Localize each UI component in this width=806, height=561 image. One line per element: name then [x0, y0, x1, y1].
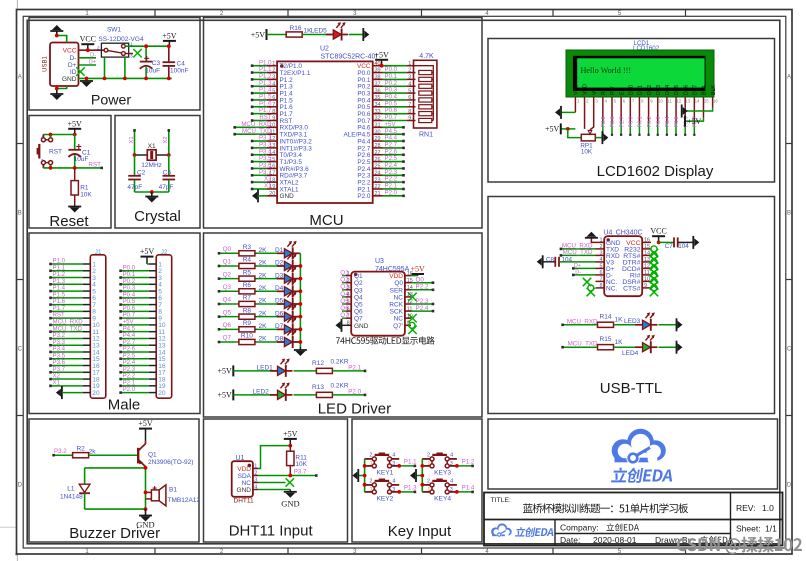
title block small logo: [491, 523, 555, 537]
Crystal box: [115, 116, 200, 229]
U2 pin 19 XTAL1: [251, 183, 299, 194]
svg-text:Q0: Q0: [223, 246, 232, 253]
svg-text:R15: R15: [600, 336, 612, 343]
svg-text:P2.0: P2.0: [123, 386, 136, 393]
LCD1 pin 14 DB7: [693, 85, 701, 136]
J1 pin 1: [49, 258, 96, 269]
+5V power flag (reset): [68, 119, 83, 134]
ground flag (LED3): [677, 318, 683, 331]
svg-text:R7: R7: [243, 295, 252, 302]
J2 pin 1: [147, 261, 162, 268]
ground flag (RP1): [602, 131, 608, 144]
wire: [257, 252, 284, 254]
J2 pin 3: [119, 271, 162, 282]
svg-text:P0.3: P0.3: [656, 116, 662, 127]
LCD1 pin 1 VSS: [574, 84, 580, 112]
J2 pin 16: [119, 359, 166, 370]
svg-text:Sheet:: Sheet:: [736, 524, 761, 534]
svg-text:D-: D-: [575, 270, 581, 276]
U2 pin 23 P2.2: [357, 176, 404, 187]
svg-text:D+: D+: [574, 263, 581, 269]
svg-text:25: 25: [375, 164, 381, 170]
svg-text:+5V: +5V: [138, 419, 153, 428]
U4 pin 4 V3: [561, 257, 615, 266]
J1 pin 9: [49, 312, 96, 323]
svg-text:31: 31: [375, 123, 381, 129]
J2 pin 12: [119, 332, 166, 343]
Power box: [29, 18, 200, 111]
svg-text:RN1: RN1: [419, 132, 433, 139]
svg-text:Key Input: Key Input: [388, 523, 452, 540]
svg-text:2N3906(TO-92): 2N3906(TO-92): [148, 459, 193, 466]
Reset box: [29, 116, 111, 229]
no-connect ID pin: [76, 67, 84, 75]
svg-text:Q6: Q6: [223, 322, 232, 329]
svg-text:+5V: +5V: [374, 50, 389, 59]
J1 pin 2: [49, 264, 96, 275]
LED LED4: [622, 335, 658, 357]
LCD1 pin 12 DB5: [674, 85, 682, 136]
node D-: [79, 52, 97, 58]
junction: [85, 77, 89, 81]
svg-text:DB3: DB3: [656, 85, 662, 95]
svg-text:8: 8: [408, 109, 411, 115]
svg-text:104: 104: [562, 256, 573, 263]
transistor Q1 2N3906(TO-92): [138, 441, 193, 466]
svg-text:6: 6: [272, 95, 275, 101]
LCD1 pin 2 VDD: [583, 84, 589, 129]
svg-text:2: 2: [408, 68, 411, 74]
USB-TTL U4 CH340C body: [603, 229, 642, 296]
wire: [257, 341, 284, 343]
title block outer: [484, 493, 783, 546]
svg-text:12: 12: [407, 299, 413, 305]
svg-text:2: 2: [369, 478, 372, 484]
svg-text:U3: U3: [375, 258, 384, 265]
svg-text:DB0: DB0: [628, 85, 634, 95]
watermark: [677, 537, 802, 555]
svg-text:Q2: Q2: [354, 280, 363, 287]
wire: [257, 316, 284, 318]
U3 pin 13 NC: [394, 292, 417, 301]
U2 pin 18 XTAL2: [251, 176, 299, 187]
svg-text:2: 2: [369, 452, 372, 458]
svg-text:R9: R9: [243, 320, 252, 327]
svg-text:0.2KR: 0.2KR: [331, 382, 349, 389]
+5V power flag (LCD BLA): [685, 116, 702, 127]
svg-text:4: 4: [408, 81, 411, 87]
svg-text:3: 3: [408, 75, 411, 81]
J1 pin 11: [49, 325, 99, 336]
svg-text:1N4148: 1N4148: [60, 493, 83, 500]
svg-text:R3: R3: [243, 244, 252, 251]
svg-text:B: B: [787, 211, 791, 217]
node Q7: [218, 335, 238, 344]
U4 pin 10 DSR#: [622, 277, 658, 290]
svg-text:20: 20: [92, 390, 100, 397]
resistor R1 10K: [71, 168, 92, 207]
U2 pin 40 VCC: [357, 61, 407, 70]
svg-text:3: 3: [599, 251, 602, 257]
svg-text:P2.0: P2.0: [357, 193, 371, 200]
J2 pin 14: [119, 346, 166, 357]
U4 pin 9 CTS#: [623, 283, 658, 296]
J2 pin 17: [119, 366, 166, 377]
svg-text:P2.4: P2.4: [416, 305, 429, 312]
svg-text:R13: R13: [312, 384, 324, 391]
J2 pin 5: [119, 285, 162, 296]
buzzer B1 TMB12A12: [146, 485, 201, 506]
LED D6: [275, 304, 299, 322]
svg-text:Crystal: Crystal: [134, 208, 181, 225]
svg-text:P2.2: P2.2: [416, 284, 429, 291]
svg-text:+5V: +5V: [218, 391, 233, 400]
J2 pin 18: [119, 373, 166, 384]
ground: [68, 207, 81, 213]
U4 pin 2 TXD: [560, 243, 620, 254]
capacitor C1 10uF: [68, 135, 90, 168]
svg-text:23: 23: [375, 177, 381, 183]
J2 pin 20: [119, 386, 166, 397]
svg-text:20: 20: [269, 191, 275, 197]
svg-text:X1: X1: [53, 379, 61, 386]
svg-text:P1.3: P1.3: [404, 485, 417, 492]
svg-text:3: 3: [272, 75, 275, 81]
svg-text:47pF: 47pF: [127, 184, 142, 191]
svg-text:27: 27: [375, 150, 381, 156]
svg-text:D: D: [787, 483, 792, 489]
junction: [288, 444, 292, 448]
svg-text:39: 39: [375, 68, 381, 74]
U2 pin 39 P0.0: [357, 66, 406, 77]
svg-text:7: 7: [408, 102, 411, 108]
svg-text:P1.2: P1.2: [462, 459, 475, 466]
svg-text:Company:: Company:: [560, 523, 599, 533]
wire: [57, 86, 67, 89]
svg-text:GND: GND: [237, 487, 252, 494]
U3 pin 9 Q7': [393, 321, 417, 335]
svg-text:+5V: +5V: [162, 31, 177, 40]
U3 pin 10 NC: [394, 313, 417, 322]
svg-text:34: 34: [375, 102, 381, 108]
wire VCC pin to switch: [79, 49, 104, 51]
ground flag (USB shield top): [50, 25, 63, 36]
+5V power flag (LED2): [218, 389, 234, 400]
svg-text:RS: RS: [601, 87, 607, 95]
LED D5: [275, 292, 299, 310]
svg-text:VCC: VCC: [650, 227, 666, 236]
svg-text:P0.5: P0.5: [674, 116, 680, 127]
svg-text:14: 14: [407, 285, 413, 291]
wire: [257, 265, 284, 267]
junction: [288, 474, 292, 478]
U4 pin 8 NC.: [587, 283, 618, 296]
junction: [657, 241, 661, 245]
wire to LED bus: [293, 328, 301, 330]
VCC power flag (U4): [650, 227, 666, 243]
svg-text:A: A: [18, 75, 22, 81]
U3 pin 11 SCK: [390, 305, 435, 316]
U2 pin 17 RD#/P3.7: [251, 169, 308, 180]
wire: [57, 36, 67, 43]
LCD box: [488, 39, 775, 183]
node MCU_TXD (LED4 row): [561, 341, 598, 349]
U2 pin 6 P1.5: [251, 94, 293, 105]
junctions: [49, 166, 77, 170]
J1 pin 4: [49, 278, 96, 289]
svg-text:1: 1: [272, 61, 275, 67]
J1 pin 12: [49, 332, 100, 343]
ground flag (LED4): [677, 341, 683, 354]
U2 pin 36 P0.3: [357, 87, 406, 98]
svg-text:10uF: 10uF: [74, 156, 89, 163]
LCD1 pin 15 BLA: [685, 85, 709, 121]
svg-text:KEY2: KEY2: [376, 496, 393, 503]
svg-text:C3: C3: [152, 60, 161, 67]
svg-text:E: E: [619, 91, 625, 95]
svg-text:CTS#: CTS#: [623, 285, 641, 292]
svg-text:Hello World !!!: Hello World !!!: [581, 66, 632, 75]
svg-text:12MHz: 12MHz: [141, 162, 162, 169]
junction: [455, 464, 459, 468]
push button RST: [37, 134, 53, 168]
svg-text:1/1: 1/1: [765, 524, 777, 534]
svg-text:SS-12D02-VG4: SS-12D02-VG4: [98, 36, 144, 43]
junction: [55, 87, 59, 91]
capacitor C8 104: [543, 256, 573, 267]
U4 pin 7 NC.: [583, 277, 618, 287]
svg-text:14: 14: [644, 251, 650, 257]
J1 pin 20: [56, 386, 100, 399]
svg-text:1K: 1K: [615, 339, 624, 346]
svg-text:VDD: VDD: [389, 273, 403, 280]
74HC595 chinese caption: [336, 336, 435, 344]
junction: [397, 490, 401, 494]
ground flag (USB shield bottom): [50, 89, 63, 101]
svg-text:GND: GND: [62, 76, 77, 83]
svg-text:C2: C2: [137, 169, 146, 176]
MCU U2 STC89C52RC-40I body: [277, 46, 377, 204]
svg-text:+5V: +5V: [218, 367, 233, 376]
ground GND (DHT11): [281, 490, 299, 509]
LCD1 pin 13 DB6: [683, 85, 691, 136]
svg-text:24: 24: [375, 170, 381, 176]
svg-text:DB2: DB2: [647, 85, 653, 95]
wire to LED bus: [293, 341, 301, 343]
USB-TTL box: [488, 197, 775, 414]
node Q1: [218, 259, 238, 268]
capacitor C5 47pF: [159, 155, 176, 192]
svg-text:GND: GND: [280, 193, 295, 200]
svg-text:STC89C52RC-40I: STC89C52RC-40I: [321, 53, 378, 60]
svg-text:26: 26: [375, 157, 381, 163]
svg-text:VDD: VDD: [583, 84, 589, 95]
no-connect (DHT11 NC): [258, 478, 294, 486]
svg-text:Q1: Q1: [148, 452, 157, 459]
svg-text:4: 4: [392, 452, 395, 458]
svg-text:5: 5: [408, 88, 411, 94]
LCD1 pin 5 RW: [610, 86, 616, 136]
svg-text:Q2: Q2: [223, 271, 232, 278]
svg-text:1: 1: [427, 461, 430, 467]
svg-text:8: 8: [347, 321, 350, 327]
svg-text:LCD1602 Display: LCD1602 Display: [597, 163, 714, 180]
U2 pin 26 P2.5: [357, 155, 404, 166]
svg-text:SW1: SW1: [107, 27, 121, 34]
ground flag: [363, 28, 369, 41]
U2 pin 35 P0.4: [357, 94, 406, 105]
LCD1 pin 8 DB1: [638, 85, 644, 136]
svg-text:DHT11: DHT11: [234, 497, 254, 504]
svg-text:29: 29: [375, 136, 381, 142]
LCEDA cloud logo: [612, 429, 666, 465]
U4 pin 3 RXD: [560, 249, 620, 260]
resistor R15 1K: [598, 336, 624, 350]
U2 pin 16 WR#/P3.6: [251, 162, 309, 173]
DHT11 box: [204, 419, 348, 542]
frame column labels: [85, 11, 622, 555]
svg-text:P3.7: P3.7: [294, 469, 307, 476]
resistor R12 0.2KR: [312, 358, 349, 373]
svg-text:NC: NC: [394, 316, 404, 323]
resistor R7 2K: [237, 295, 267, 307]
U4 pin 12 DCD#: [622, 264, 658, 277]
J1 pin 5: [49, 285, 96, 296]
svg-text:D: D: [18, 483, 23, 489]
svg-text:9: 9: [272, 116, 275, 122]
svg-text:RST: RST: [88, 161, 101, 168]
LCD1 pin 4 RS: [601, 87, 607, 136]
svg-text:Buzzer Driver: Buzzer Driver: [69, 525, 160, 542]
svg-text:2: 2: [599, 244, 602, 250]
svg-text:1: 1: [599, 238, 602, 244]
+5V power flag (LED1): [218, 365, 234, 376]
svg-text:11: 11: [407, 306, 413, 312]
U2 pin 30 ALE/P4.5: [343, 128, 404, 139]
+5V power flag (U3 VDD): [411, 265, 426, 276]
J2 pin 7: [119, 298, 162, 309]
wire to LED bus: [293, 316, 301, 318]
svg-text:VSS: VSS: [574, 84, 580, 95]
svg-text:3: 3: [450, 487, 453, 493]
wire: [233, 370, 277, 372]
J1 pin 6: [49, 291, 96, 302]
resistor R5 2K: [237, 269, 267, 281]
node Q6: [218, 322, 238, 331]
junctions: [363, 464, 367, 487]
node P1.4: [457, 485, 475, 494]
no-connect switch pin 3: [125, 49, 141, 57]
svg-text:2: 2: [427, 478, 430, 484]
resistor R6 2K: [237, 282, 267, 294]
svg-text:Q7: Q7: [354, 316, 363, 323]
svg-text:+5V: +5V: [283, 429, 298, 438]
svg-text:104: 104: [678, 243, 689, 250]
svg-text:1: 1: [370, 461, 373, 467]
svg-text:SCK: SCK: [390, 309, 404, 316]
svg-text:VDD: VDD: [237, 466, 251, 473]
key switch KEY1: [365, 452, 400, 476]
J1 pin 14: [49, 346, 100, 357]
svg-text:DB7: DB7: [693, 85, 699, 95]
svg-text:GND: GND: [354, 323, 369, 330]
svg-text:Q4: Q4: [354, 294, 363, 301]
svg-text:NC.: NC.: [606, 285, 617, 292]
J1 pin 17: [49, 366, 100, 377]
wire base: [89, 454, 138, 456]
node Q2: [218, 271, 238, 280]
J1 pin 13: [49, 339, 100, 350]
svg-text:3: 3: [450, 461, 453, 467]
svg-text:MCU: MCU: [309, 212, 343, 229]
svg-text:Q7: Q7: [223, 335, 232, 342]
svg-text:R8: R8: [243, 307, 252, 314]
svg-text:R2: R2: [76, 445, 85, 452]
svg-text:DB1: DB1: [638, 85, 644, 95]
junctions: [420, 464, 424, 487]
ground flag (LCD BLK): [682, 105, 688, 118]
node Q0: [218, 246, 238, 255]
J1 pin 8: [49, 305, 96, 316]
svg-text:P2.5: P2.5: [601, 116, 607, 127]
title block REV: [736, 503, 774, 513]
J2 pin 19: [119, 379, 166, 390]
J1 pin 10: [49, 319, 100, 330]
wire: [267, 34, 287, 36]
J2 pin 2: [119, 264, 162, 275]
U3 pin 4 Q4: [340, 291, 363, 302]
LCD1 pin 9 DB2: [647, 85, 653, 136]
svg-text:4: 4: [599, 257, 602, 263]
U2 pin 7 P1.6: [251, 100, 293, 111]
U4 pin 14 RTS#: [623, 251, 658, 264]
wire switch mount pins: [105, 57, 125, 78]
svg-text:LED4: LED4: [622, 350, 639, 357]
node P2.1: [332, 365, 366, 373]
svg-text:Q5: Q5: [223, 309, 232, 316]
wire diode branch top: [85, 467, 146, 469]
svg-text:4: 4: [272, 81, 275, 87]
LED D3: [275, 266, 299, 284]
svg-text:+5V: +5V: [68, 119, 83, 128]
svg-text:GND: GND: [281, 498, 299, 508]
svg-text:2: 2: [272, 68, 275, 74]
svg-text:1: 1: [370, 487, 373, 493]
svg-text:LED2: LED2: [253, 388, 270, 395]
svg-text:L1: L1: [67, 486, 75, 493]
svg-text:KEY4: KEY4: [434, 496, 451, 503]
wire: [349, 34, 363, 36]
svg-text:47pF: 47pF: [159, 184, 174, 191]
svg-text:4: 4: [41, 135, 44, 141]
J2 pin 11: [119, 325, 165, 336]
junction VCC: [86, 48, 90, 52]
U2 pin 25 P2.4: [357, 162, 404, 173]
key switch KEY3: [422, 452, 457, 476]
LCD1 pin 6 E: [619, 91, 625, 136]
svg-text:LED5: LED5: [311, 27, 328, 34]
resistor R10 2K: [237, 333, 267, 345]
svg-text:3: 3: [392, 487, 395, 493]
svg-text:9: 9: [644, 283, 647, 289]
U2 pin 8 P1.7: [251, 107, 293, 118]
title block date / drawn by: [560, 535, 733, 545]
svg-text:Q0: Q0: [416, 277, 425, 284]
resistor R8 2K: [237, 307, 267, 319]
svg-text:C4: C4: [177, 61, 186, 68]
J2 pin 8: [119, 305, 162, 316]
svg-text:9: 9: [407, 321, 410, 327]
